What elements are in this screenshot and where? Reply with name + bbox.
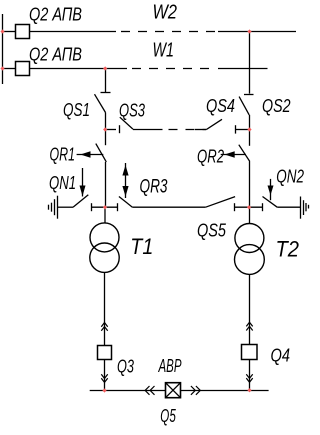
svg-text:QS1: QS1 — [63, 100, 90, 120]
svg-text:АВР: АВР — [158, 356, 182, 376]
svg-text:QN2: QN2 — [276, 167, 304, 187]
svg-text:Q5: Q5 — [160, 406, 176, 426]
svg-text:Q3: Q3 — [117, 356, 134, 376]
svg-text:QS2: QS2 — [262, 96, 291, 116]
svg-text:QR3: QR3 — [140, 177, 168, 198]
svg-text:QS3: QS3 — [119, 101, 145, 121]
svg-text:T1: T1 — [130, 234, 153, 259]
svg-text:QR1: QR1 — [50, 145, 76, 165]
svg-text:Q2 АПВ: Q2 АПВ — [29, 44, 82, 64]
svg-text:Q2 АПВ: Q2 АПВ — [29, 5, 82, 25]
svg-text:Q4: Q4 — [271, 345, 291, 365]
svg-text:QR2: QR2 — [197, 147, 224, 167]
svg-text:QN1: QN1 — [49, 173, 76, 193]
svg-text:W2: W2 — [153, 2, 178, 24]
svg-text:T2: T2 — [276, 237, 300, 262]
svg-text:QS4: QS4 — [206, 96, 235, 116]
svg-text:QS5: QS5 — [197, 221, 227, 241]
svg-text:W1: W1 — [153, 40, 175, 62]
